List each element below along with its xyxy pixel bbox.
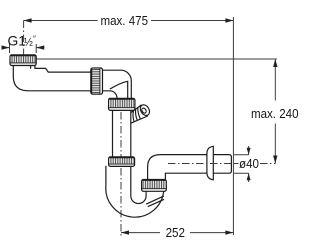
svg-text:252: 252 [166,226,185,240]
nut mid horizontal pipe [91,68,103,94]
diameter 40 arrow stems [248,146,250,182]
centerline trap downpipe [120,112,122,236]
dimension max. 475 line [24,20,234,22]
wall flange [207,146,213,180]
pipe drawing [13,65,231,217]
arrow 252 left [121,230,129,234]
trap internal diagonal 2 [148,200,163,207]
nut trap top [109,157,135,167]
arrow 252 right [225,230,233,234]
horizontal pipe top edge right of nut [102,70,131,98]
reference plane line [36,58,277,60]
arrow max240 bottom [273,156,277,164]
svg-text:½: ½ [24,36,33,48]
inlet elbow outer and bottom edge of horizontal pipe [13,65,117,98]
arrowheads [2,18,278,235]
svg-text:max. 475: max. 475 [101,14,149,28]
arrow G left [2,45,10,49]
down pipe right edge [130,110,132,157]
arrow dia40 bottom [247,173,251,180]
dimension max. 240 line [274,59,276,164]
trap body outer [106,166,164,217]
inlet pipe right edge stub [30,65,32,68]
nut riser [142,180,167,192]
down elbow crease [110,81,127,98]
diameter 40 extension lines [234,155,249,174]
arrow max475 right [225,18,233,22]
arrow G right [36,45,44,49]
arrow max475 left [24,18,32,22]
dimension 252 line [121,232,233,234]
trap inner U [131,166,146,203]
svg-text:ø40: ø40 [239,157,259,171]
arrow dia40 top [247,148,251,155]
G1 1/2 dim arrows lines [2,47,45,49]
outlet elbow and pipe top edge with end cap [148,155,232,180]
centerline inlet [23,21,25,67]
spigot washing machine barb [131,103,152,123]
down pipe left edge [112,110,114,157]
inlet elbow socket top edge [35,65,91,72]
nut below down elbow [109,98,135,110]
svg-text:″: ″ [33,35,36,44]
centerlines dash-dot [24,21,276,237]
G1 1/2 dim ticks [10,44,37,53]
trap internal diagonal 1 [147,196,164,204]
centerline outlet right of wall [234,163,275,165]
centerline outlet [168,163,233,165]
svg-text:max. 240: max. 240 [251,107,299,121]
nut inlet G1.5 [10,55,36,66]
arrow max240 top [273,59,277,67]
wall plane line [232,17,234,235]
